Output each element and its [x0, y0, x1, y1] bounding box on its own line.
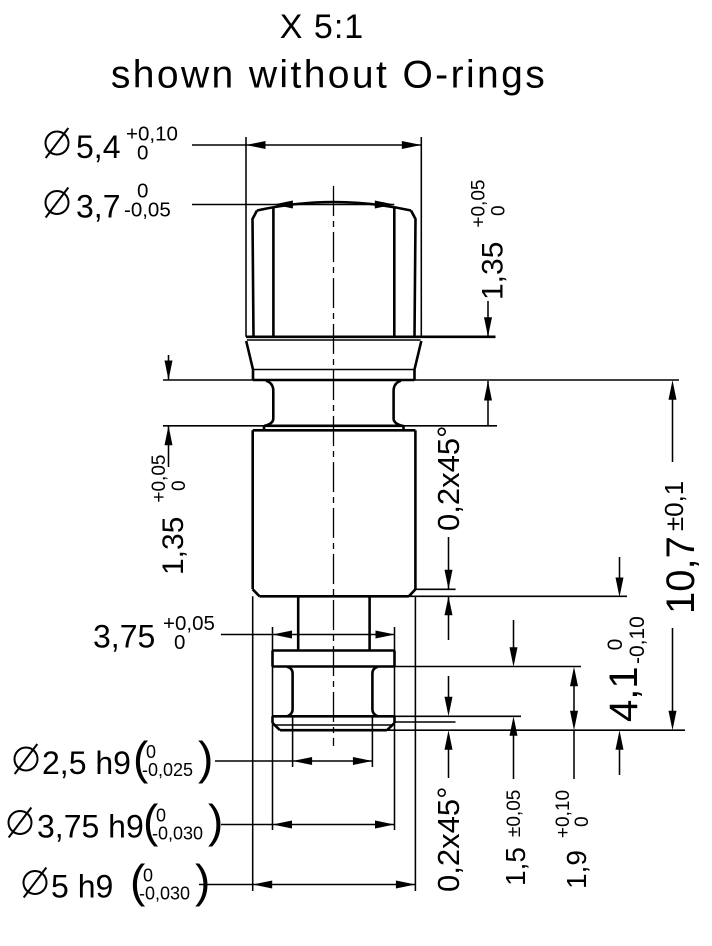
svg-text:+0,05: +0,05 — [163, 612, 215, 635]
svg-text:): ) — [195, 855, 210, 907]
svg-text:+0,10: +0,10 — [126, 123, 178, 146]
svg-text:): ) — [208, 795, 223, 847]
svg-text:5,4: 5,4 — [76, 129, 120, 165]
svg-text:0: 0 — [143, 866, 153, 886]
svg-text:3,7: 3,7 — [76, 189, 120, 225]
svg-text:0,2x45°: 0,2x45° — [431, 426, 466, 531]
svg-text:3,75 h9: 3,75 h9 — [37, 809, 144, 845]
svg-text:): ) — [198, 732, 213, 784]
svg-text:shown without O-rings: shown without O-rings — [111, 54, 547, 97]
svg-text:2,5 h9: 2,5 h9 — [42, 745, 131, 781]
svg-text:-0,05: -0,05 — [124, 199, 171, 222]
svg-text:5 h9: 5 h9 — [51, 869, 113, 905]
svg-text:-0,030: -0,030 — [152, 824, 203, 844]
svg-text:-0,030: -0,030 — [139, 884, 190, 904]
svg-text:X 5:1: X 5:1 — [280, 8, 364, 46]
svg-text:0: 0 — [174, 631, 185, 654]
svg-text:0: 0 — [156, 806, 166, 826]
svg-text:0,2x45°: 0,2x45° — [431, 787, 466, 892]
svg-text:-0,025: -0,025 — [142, 760, 193, 780]
svg-text:3,75: 3,75 — [93, 619, 155, 655]
svg-text:0: 0 — [146, 742, 156, 762]
svg-text:0: 0 — [137, 142, 148, 165]
